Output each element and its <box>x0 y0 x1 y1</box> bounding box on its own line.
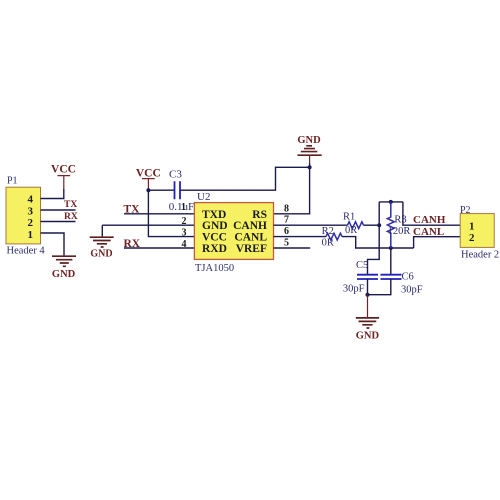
wire CANL rail up to P2 pin 2 <box>414 237 461 248</box>
junction VCC / C3 <box>146 188 150 192</box>
connector P1 <box>6 176 45 257</box>
svg-text:Header 2: Header 2 <box>461 250 499 261</box>
svg-text:CANL: CANL <box>234 232 267 244</box>
wire U2 VREF pin 5 stub <box>274 247 311 249</box>
wire TX to U2 TXD pin 1 <box>124 213 194 215</box>
svg-text:VCC: VCC <box>136 168 161 180</box>
wire CANH vertical to top rail and C5 <box>368 202 380 274</box>
svg-text:RXD: RXD <box>202 243 227 255</box>
svg-text:P1: P1 <box>7 176 18 187</box>
junction CANL / R3 / C6 <box>389 246 393 250</box>
wire P1 pin2 RX stub <box>41 221 76 223</box>
wire VCC junction to C3 left plate <box>148 189 174 191</box>
svg-text:VCC: VCC <box>51 164 76 176</box>
connector P2 <box>460 205 499 261</box>
svg-text:U2: U2 <box>197 191 210 203</box>
wire R1 to CANH vertical <box>364 224 380 226</box>
svg-text:TJA1050: TJA1050 <box>195 263 234 274</box>
svg-text:C3: C3 <box>169 169 182 181</box>
resistor R1 <box>343 212 364 237</box>
svg-text:GND: GND <box>90 249 112 260</box>
svg-text:120R: 120R <box>388 226 411 237</box>
wire C6 bottom to junction <box>368 279 391 295</box>
svg-text:TXD: TXD <box>202 209 226 221</box>
wire VCC junction down to U2 VCC pin <box>148 190 194 236</box>
svg-text:30pF: 30pF <box>343 284 365 295</box>
capacitor C3 <box>169 169 194 213</box>
svg-text:R2: R2 <box>322 226 334 237</box>
wire RX to U2 RXD pin 4 <box>124 247 194 249</box>
svg-text:2: 2 <box>28 217 34 229</box>
power VCC symbol at P1 <box>51 164 76 190</box>
svg-text:8: 8 <box>284 203 289 214</box>
IC U2 TJA1050 <box>194 191 273 274</box>
svg-text:R3: R3 <box>394 215 406 226</box>
wire P1 pin4 to VCC <box>41 189 64 199</box>
ground symbol top (RS net) inverted <box>297 135 321 163</box>
svg-text:3: 3 <box>182 227 187 238</box>
resistor R2 <box>322 226 342 249</box>
svg-text:RX: RX <box>64 212 78 222</box>
wire C3 right plate to top GND net <box>181 167 310 190</box>
svg-text:GND: GND <box>52 269 76 280</box>
wire C5 bottom to junction <box>367 279 369 295</box>
svg-text:VREF: VREF <box>236 243 267 255</box>
svg-text:7: 7 <box>284 215 289 226</box>
wire GND to U2 GND pin 2 <box>102 224 194 226</box>
svg-text:4: 4 <box>28 193 34 205</box>
svg-text:1: 1 <box>28 229 34 241</box>
svg-text:0R: 0R <box>322 238 334 249</box>
svg-text:VCC: VCC <box>202 232 227 244</box>
svg-text:2: 2 <box>182 216 187 227</box>
wire R2 to CANL bottom rail <box>342 237 414 248</box>
svg-text:4: 4 <box>182 239 187 250</box>
wire U2 CANH pin 7 to R1 <box>274 224 348 226</box>
svg-text:0R: 0R <box>345 225 357 236</box>
svg-text:2: 2 <box>469 232 475 244</box>
svg-text:5: 5 <box>284 237 289 248</box>
svg-text:TX: TX <box>64 200 77 210</box>
svg-text:GND: GND <box>297 135 321 146</box>
wire R3 bottom junction to C6 top <box>390 248 392 274</box>
svg-text:3: 3 <box>28 206 34 218</box>
junction C5/C6 ground <box>366 293 370 297</box>
wire top rail <box>379 201 403 203</box>
svg-text:CANH: CANH <box>413 214 446 226</box>
ground symbol at U2 GND pin <box>90 225 114 259</box>
resistor R3 <box>387 202 410 248</box>
wire P1 pin1 to ground <box>41 233 65 256</box>
svg-text:GND: GND <box>202 220 228 232</box>
junction R3 top <box>389 200 393 204</box>
svg-text:C6: C6 <box>402 272 414 283</box>
svg-text:30pF: 30pF <box>401 284 423 295</box>
svg-text:1: 1 <box>181 202 186 213</box>
svg-text:Header 4: Header 4 <box>7 245 46 256</box>
ground symbol below P1 <box>52 256 76 280</box>
svg-text:RS: RS <box>252 209 267 221</box>
svg-text:P2: P2 <box>460 205 471 216</box>
svg-text:R1: R1 <box>343 212 355 223</box>
capacitor C5 <box>343 260 378 295</box>
wire U2 CANL pin 6 to R2 <box>274 236 327 238</box>
wire top rail down to P2 CANH <box>403 202 460 225</box>
svg-text:CANL: CANL <box>413 226 444 238</box>
junction CANH <box>377 223 381 227</box>
capacitor C6 <box>381 272 423 296</box>
junction top GND <box>308 165 312 169</box>
svg-text:C5: C5 <box>356 260 368 271</box>
power VCC symbol at C3 <box>136 168 161 191</box>
svg-text:1: 1 <box>469 220 475 232</box>
wire P1 pin3 TX stub <box>41 209 76 211</box>
ground symbol bottom right <box>356 295 380 342</box>
svg-text:CANH: CANH <box>233 220 267 232</box>
svg-text:6: 6 <box>284 226 289 237</box>
wire top GND junction down to U2 RS pin 8 <box>274 163 310 214</box>
svg-text:GND: GND <box>356 330 380 341</box>
